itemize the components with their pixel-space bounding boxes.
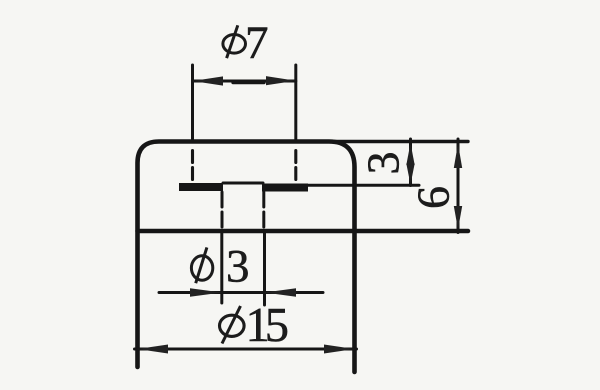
dim6 bottom arrowhead — [454, 206, 462, 230]
svg-text:3: 3 — [226, 240, 250, 292]
dim6 top arrowhead — [454, 144, 462, 169]
phi7 right extension line — [294, 65, 297, 142]
phi3 left extension line — [220, 233, 223, 303]
phi7 dimension line — [193, 80, 296, 83]
hidden line right hole edge — [262, 192, 265, 228]
phi7 left hidden dashes — [191, 151, 194, 182]
dim3 top arrowhead — [406, 143, 414, 165]
phi3 left arrowhead — [190, 288, 222, 297]
phi15 left arrowhead — [138, 345, 169, 354]
phi7 left arrowhead — [193, 76, 224, 85]
phi symbol of phi3 — [191, 247, 212, 283]
phi15 right arrowhead — [324, 345, 355, 354]
phi7 right arrowhead — [266, 76, 296, 85]
flange right thick bar — [262, 184, 308, 192]
phi15 dimension line — [135, 348, 357, 351]
flange left thick bar — [179, 183, 223, 191]
top edge extension line to the right — [330, 140, 468, 143]
phi7 right hidden dashes — [294, 151, 297, 182]
flange level extension line to the right — [308, 184, 419, 187]
phi symbol of phi15 — [220, 306, 245, 344]
phi3 right arrowhead — [265, 288, 297, 297]
flange thin line across hole — [223, 182, 263, 185]
svg-text:3: 3 — [358, 152, 409, 175]
phi3 right extension line — [263, 233, 266, 305]
hidden line left hole edge — [221, 192, 224, 228]
phi3 dimension line — [159, 291, 323, 294]
dim3 bottom arrowhead — [406, 164, 414, 185]
phi symbol of phi7 — [223, 25, 246, 58]
dim 6 vertical dimension line — [457, 139, 460, 233]
dim 3 vertical dimension line — [409, 139, 412, 186]
svg-text:7: 7 — [245, 17, 269, 69]
inner bottom line of cap head extended right as extension line — [138, 229, 469, 234]
svg-text:6: 6 — [408, 186, 459, 209]
phi7 left extension line — [191, 65, 194, 142]
cap outline — [138, 142, 355, 373]
svg-text:15: 15 — [246, 299, 288, 352]
wire: double-inked middle of phi7 dim line — [233, 81, 264, 84]
